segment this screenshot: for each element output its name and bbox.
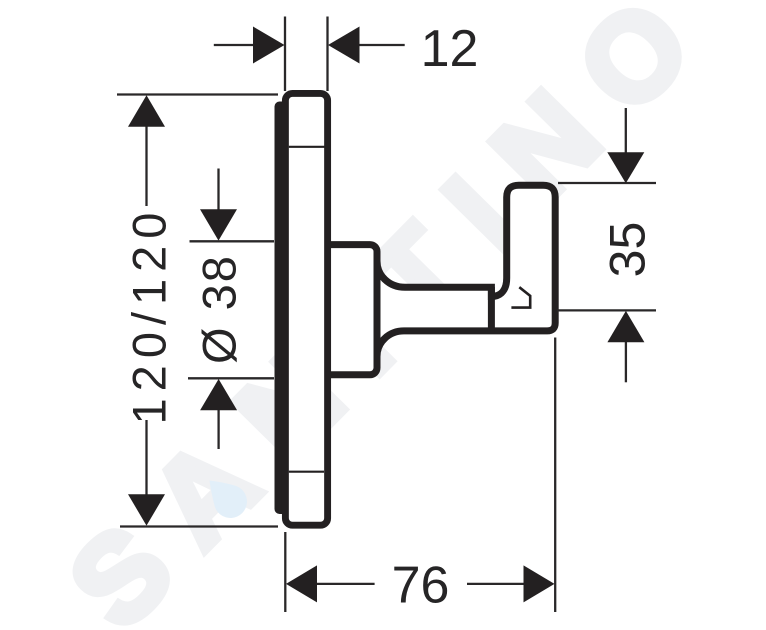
svg-text:120/120: 120/120 — [123, 206, 176, 425]
svg-text:76: 76 — [392, 557, 450, 615]
svg-text:12: 12 — [421, 20, 479, 78]
svg-text:Ø 38: Ø 38 — [193, 254, 246, 364]
svg-text:35: 35 — [600, 222, 656, 278]
